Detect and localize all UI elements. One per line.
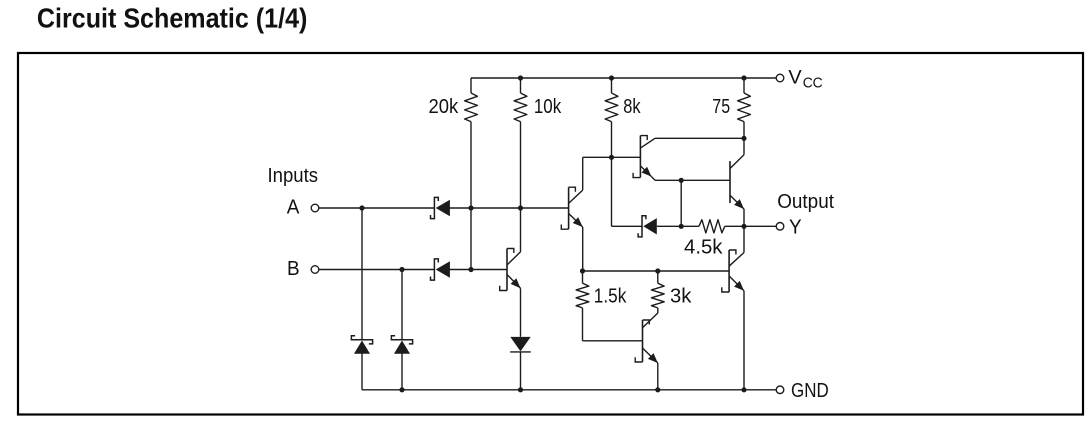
resistor 10k	[514, 78, 527, 208]
svg-text:Inputs: Inputs	[268, 165, 319, 187]
node 20k column / B line	[468, 267, 473, 272]
diode D3	[510, 337, 531, 352]
diode D5 schottky clamp A	[351, 336, 372, 354]
diode D2 schottky input B	[431, 259, 450, 280]
transistor Q5	[722, 226, 744, 389]
wire 8k column down to Y line	[611, 157, 613, 226]
transistor Q6	[635, 313, 658, 390]
svg-text:Circuit Schematic (1/4): Circuit Schematic (1/4)	[37, 3, 308, 34]
transistor Q2	[561, 157, 582, 271]
wire B clamp branch	[401, 270, 403, 340]
diode D4 schottky output	[638, 216, 657, 237]
resistor 4.5k	[699, 220, 725, 233]
node Y / Q3-branch junction	[679, 224, 684, 229]
svg-text:10k: 10k	[534, 96, 562, 118]
transistor Q3	[633, 136, 655, 181]
node 3k top	[655, 268, 660, 273]
wire 4.5k to Y terminal	[725, 225, 776, 227]
node B clamp / GND	[399, 387, 404, 392]
resistor 1.5k	[576, 271, 589, 341]
wire A clamp branch	[361, 208, 363, 340]
svg-text:75: 75	[712, 96, 730, 118]
node Vcc/10k junction	[518, 75, 523, 80]
wire A diode to Q2 base	[450, 207, 569, 209]
wire branch down to Y line	[680, 180, 682, 226]
wire 1.5k to Q6 base	[583, 340, 643, 342]
node 8k / Q2 collector / Q3 base	[609, 155, 614, 160]
wire B diode to Q1 base	[450, 269, 508, 271]
terminal input A	[311, 204, 319, 212]
svg-text:B: B	[287, 258, 300, 280]
wire D3 to GND	[520, 352, 522, 390]
wire input A line	[319, 207, 434, 209]
diode D6 schottky clamp B	[391, 336, 412, 354]
terminal GND	[776, 386, 784, 394]
svg-text:A: A	[287, 196, 300, 218]
label Vcc	[788, 66, 822, 91]
terminal output Y	[776, 223, 784, 231]
node 10k / Q1 collector / A line	[518, 205, 523, 210]
terminal Vcc	[776, 74, 784, 82]
terminal input B	[311, 266, 319, 274]
svg-text:V: V	[788, 66, 801, 88]
node D3/GND	[518, 387, 523, 392]
wire Q2 emitter line to Q5 base	[583, 270, 730, 272]
resistor 75	[738, 78, 751, 138]
node Q3 emitter / 4.5k branch	[679, 178, 684, 183]
node A clamp branch	[359, 205, 364, 210]
diode D1 schottky input A	[431, 197, 450, 218]
wire Vcc rail	[471, 77, 776, 79]
resistor 8k	[605, 78, 618, 157]
node 20k / A line	[468, 205, 473, 210]
resistor 20k	[465, 78, 478, 208]
wire D4 to 4.5k	[657, 225, 699, 227]
wire Q3 emitter to Q4 base	[655, 179, 730, 181]
node Vcc/75R junction	[741, 75, 746, 80]
svg-text:8k: 8k	[623, 96, 641, 118]
node Y / Q4 emitter / Q5 collector	[741, 224, 746, 229]
transistor Q1	[500, 208, 521, 337]
svg-text:Output: Output	[777, 191, 834, 213]
wire GND rail	[362, 389, 776, 391]
svg-text:1.5k: 1.5k	[594, 286, 627, 308]
wire B clamp to GND	[401, 354, 403, 390]
wire Q2 collector to 8k node	[583, 156, 612, 158]
wire 8k node to Q3 base	[612, 156, 641, 158]
wire 20k column A to B	[470, 208, 472, 270]
svg-text:CC: CC	[803, 75, 823, 92]
wire A clamp to GND	[361, 354, 363, 390]
svg-text:Y: Y	[789, 216, 802, 238]
node 1.5k / Q2 emitter	[580, 268, 585, 273]
svg-text:4.5k: 4.5k	[684, 236, 724, 258]
node B clamp branch	[399, 267, 404, 272]
svg-text:3k: 3k	[670, 286, 692, 308]
node 75R / Q3 / Q4 collectors	[741, 136, 746, 141]
svg-text:20k: 20k	[429, 96, 460, 118]
resistor 3k	[651, 271, 664, 313]
node Vcc/8k junction	[609, 75, 614, 80]
wire Q3 collector to 75R node	[655, 137, 744, 139]
wire input B line	[319, 269, 434, 271]
node Q5 emitter / GND	[741, 387, 746, 392]
svg-text:GND: GND	[791, 380, 829, 402]
node Q6 emitter / GND	[655, 387, 660, 392]
transistor Q4	[730, 138, 744, 226]
